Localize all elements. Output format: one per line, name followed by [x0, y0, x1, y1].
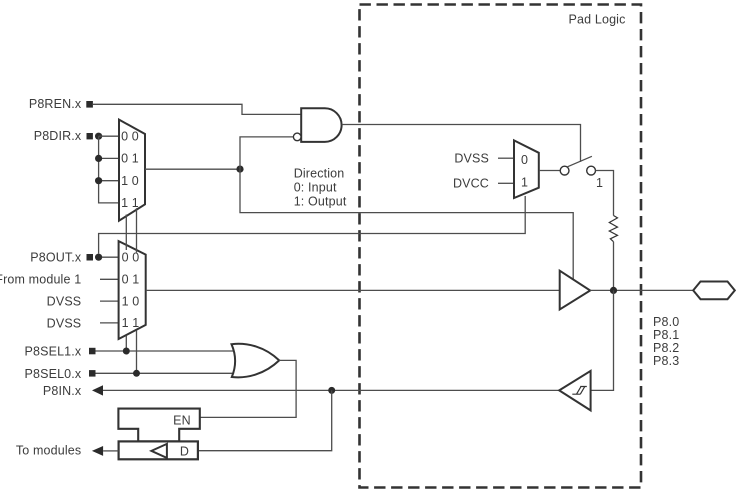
mux M1 (direction mux) [119, 120, 145, 221]
P8REN.x terminal square [86, 101, 93, 108]
svg-text:1 1: 1 1 [121, 196, 139, 210]
D latch triangle symbol [151, 444, 167, 458]
svg-text:EN: EN [173, 413, 191, 427]
svg-text:P8SEL0.x: P8SEL0.x [25, 367, 82, 381]
svg-text:P8IN.x: P8IN.x [43, 384, 82, 398]
wire DVSS stub row3 [100, 322, 119, 324]
node P8OUT junction dot [95, 254, 102, 261]
wire node A down to direction line, right to output buffer enable [240, 169, 573, 280]
node pad junction dot [610, 287, 617, 294]
switch contact circle right [587, 166, 596, 175]
node P8SEL0 junction dot [133, 370, 140, 377]
wire mux M1 output to node A [145, 168, 240, 170]
svg-text:0 0: 0 0 [121, 129, 139, 143]
wire select S1 between muxes [125, 215, 127, 251]
wire DVSS stub row2 [100, 300, 119, 302]
node P8IN junction dot [328, 387, 335, 394]
EN latch box [118, 409, 199, 442]
wire resistor to pad node [613, 242, 615, 291]
output buffer U3 [560, 271, 591, 310]
wire pad node down to Schmitt input [591, 290, 614, 390]
wire P8IN from Schmitt trigger [103, 389, 559, 391]
svg-text:P8DIR.x: P8DIR.x [34, 129, 82, 143]
svg-text:0 1: 0 1 [122, 273, 140, 287]
svg-text:P8.3: P8.3 [653, 354, 679, 368]
Schmitt trigger input buffer U4 [559, 371, 590, 411]
wire P8OUT to mux M2 select [99, 196, 526, 254]
Pad Logic dashed box [360, 5, 642, 488]
mux M3 (output source mux) [119, 241, 146, 339]
svg-text:DVSS: DVSS [47, 316, 82, 330]
resistor R1 [609, 216, 617, 242]
svg-text:Direction: Direction [294, 166, 345, 180]
wire DVCC stub [498, 182, 514, 184]
svg-text:0: Input: 0: Input [294, 180, 337, 194]
svg-text:To modules: To modules [16, 444, 81, 458]
wire select S0 below mux M3 [136, 331, 138, 374]
svg-text:P8OUT.x: P8OUT.x [30, 250, 82, 264]
node A junction dot [236, 166, 243, 173]
wire buffer output to pad node [590, 289, 693, 291]
wire select S0 between muxes [136, 208, 138, 252]
svg-text:P8.2: P8.2 [653, 341, 679, 355]
D latch box [119, 441, 198, 459]
svg-text:1 1: 1 1 [122, 316, 140, 330]
P8OUT.x terminal square [87, 254, 94, 261]
P8SEL1.x terminal square [89, 348, 96, 355]
node dot row3 [95, 177, 102, 184]
wire node A up to AND gate inverted input [240, 137, 293, 169]
wire select S1 below mux M3 [125, 336, 127, 351]
node P8SEL1 junction dot [123, 348, 130, 355]
svg-text:1: 1 [596, 176, 603, 190]
Schmitt hysteresis symbol [572, 387, 587, 395]
svg-text:DVSS: DVSS [47, 295, 82, 309]
svg-text:1: Output: 1: Output [294, 194, 347, 208]
wire P8IN node down to D latch input [198, 390, 332, 450]
mux M2 (pull-up/pull-down select) [514, 140, 539, 198]
pad hexagon [693, 282, 735, 300]
svg-text:1 0: 1 0 [122, 294, 140, 308]
node dot row2 [95, 155, 102, 162]
wire P8REN.x to AND gate top input [93, 104, 301, 114]
AND gate input bubble [293, 133, 301, 141]
To modules arrowhead [92, 446, 103, 456]
svg-text:1: 1 [521, 175, 528, 189]
AND gate U1 [301, 108, 341, 142]
OR gate U2 [232, 344, 280, 378]
wire P8DIR vertical distribution [99, 136, 119, 203]
svg-text:Pad Logic: Pad Logic [569, 12, 626, 26]
svg-text:DVSS: DVSS [454, 152, 489, 166]
svg-text:P8.0: P8.0 [653, 315, 679, 329]
wire mux M2 output to switch [539, 170, 560, 172]
svg-text:1 0: 1 0 [121, 174, 139, 188]
svg-text:0: 0 [521, 153, 528, 167]
P8IN.x arrowhead [92, 385, 103, 395]
wire P8OUT to mux M3 [102, 256, 119, 258]
wire From module 1 stub [100, 278, 119, 280]
wire AND output to switch control [342, 125, 581, 162]
svg-text:0 0: 0 0 [122, 251, 140, 265]
wire switch to resistor [596, 171, 614, 216]
wire DVSS stub [498, 157, 514, 159]
P8SEL0.x terminal square [89, 370, 96, 377]
svg-text:DVCC: DVCC [453, 177, 489, 191]
wire mux M3 output to output buffer [146, 289, 560, 291]
switch contact circle left [560, 166, 569, 175]
svg-text:P8REN.x: P8REN.x [29, 97, 82, 111]
switch lever [567, 156, 592, 167]
P8DIR.x terminal square [87, 133, 93, 139]
wire D latch output to arrow [103, 450, 119, 452]
svg-text:From module 1: From module 1 [0, 273, 81, 287]
svg-text:P8.1: P8.1 [653, 328, 679, 342]
svg-text:P8SEL1.x: P8SEL1.x [25, 345, 82, 359]
wire OR output to EN latch [200, 360, 296, 417]
svg-text:0 1: 0 1 [121, 152, 139, 166]
svg-text:D: D [180, 445, 189, 459]
wire P8SEL0 to OR gate [96, 372, 236, 374]
wire P8SEL1 to OR gate [96, 350, 236, 352]
node P8DIR junction dot [95, 133, 102, 140]
